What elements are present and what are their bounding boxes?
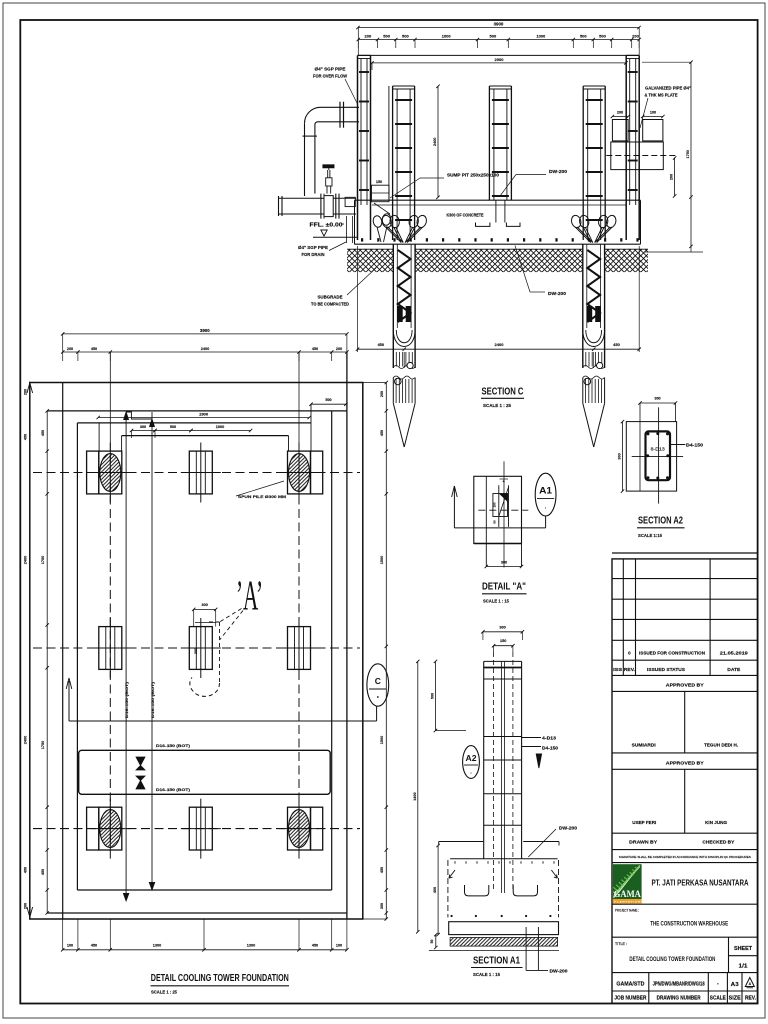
svg-text:450: 450 xyxy=(312,347,318,351)
svg-text:3900: 3900 xyxy=(494,22,504,27)
svg-text:1500: 1500 xyxy=(380,556,384,564)
svg-text:SECTION C: SECTION C xyxy=(482,386,524,398)
svg-text:FFL. ±0.00: FFL. ±0.00 xyxy=(310,223,343,229)
svg-text:2400: 2400 xyxy=(495,342,505,347)
svg-text:Ø4" SGP PIPE: Ø4" SGP PIPE xyxy=(298,245,328,250)
svg-text:200: 200 xyxy=(617,111,623,115)
svg-text:’A’: ’A’ xyxy=(236,574,263,620)
svg-text:300: 300 xyxy=(140,425,146,429)
svg-text:1000: 1000 xyxy=(216,425,224,429)
svg-text:GAMA: GAMA xyxy=(614,889,641,899)
svg-text:JPN/DWG/MBANR/DWG/18: JPN/DWG/MBANR/DWG/18 xyxy=(653,982,705,988)
svg-text:D16-150 (BOT): D16-150 (BOT) xyxy=(125,681,129,718)
svg-text:SUMIARDI: SUMIARDI xyxy=(632,743,656,748)
svg-text:ISSUED STATUS: ISSUED STATUS xyxy=(647,667,685,672)
svg-text:1750: 1750 xyxy=(41,741,45,749)
svg-text:1400: 1400 xyxy=(413,792,417,800)
svg-text:450: 450 xyxy=(24,434,28,440)
svg-text:50: 50 xyxy=(430,940,434,944)
svg-text:DETAIL "A": DETAIL "A" xyxy=(482,582,526,593)
svg-text:450: 450 xyxy=(380,430,384,436)
svg-text:500: 500 xyxy=(402,34,409,39)
svg-text:100: 100 xyxy=(67,943,73,947)
svg-text:D16-150 (BOT): D16-150 (BOT) xyxy=(156,788,191,792)
svg-text:SCALE 1 : 25: SCALE 1 : 25 xyxy=(151,989,177,994)
svg-text:150: 150 xyxy=(493,502,497,507)
svg-text:4: 4 xyxy=(503,479,505,483)
svg-text:100: 100 xyxy=(336,943,342,947)
svg-text:D4-150: D4-150 xyxy=(542,746,559,751)
svg-text:KIN JUNG: KIN JUNG xyxy=(705,820,728,825)
svg-text:450: 450 xyxy=(24,867,28,873)
svg-text:450: 450 xyxy=(377,342,384,347)
svg-text:SECTION A1: SECTION A1 xyxy=(473,955,520,966)
svg-text:3900: 3900 xyxy=(200,328,210,333)
svg-text:FOR DRAIN: FOR DRAIN xyxy=(302,252,325,257)
svg-text:1300: 1300 xyxy=(247,943,255,947)
svg-text:SPUN PILE Ø300 MM: SPUN PILE Ø300 MM xyxy=(238,494,287,499)
svg-text:2400: 2400 xyxy=(24,556,28,564)
svg-text:50: 50 xyxy=(493,520,497,524)
svg-text:300: 300 xyxy=(380,903,384,909)
svg-text:1750: 1750 xyxy=(41,556,45,564)
svg-text:SIGNATURE SHALL BE COMPLETED I: SIGNATURE SHALL BE COMPLETED IN ACCORDAN… xyxy=(619,855,751,859)
svg-text:TEGUH DEDI H.: TEGUH DEDI H. xyxy=(704,743,738,748)
svg-text:500: 500 xyxy=(490,34,497,39)
svg-text:SECTION A2: SECTION A2 xyxy=(638,516,683,527)
svg-text:THE CONSTRUCTION WAREHOUSE: THE CONSTRUCTION WAREHOUSE xyxy=(650,921,728,927)
svg-text:APPROVED BY: APPROVED BY xyxy=(666,683,705,689)
svg-text:450: 450 xyxy=(613,342,620,347)
svg-text:SCALE 1:15: SCALE 1:15 xyxy=(638,533,662,538)
svg-text:200: 200 xyxy=(24,903,28,909)
svg-text:300: 300 xyxy=(194,648,198,654)
svg-text:TO BE COMPACTED: TO BE COMPACTED xyxy=(311,301,349,306)
svg-text:500: 500 xyxy=(383,34,390,39)
svg-text:K300 OF CONCRETE: K300 OF CONCRETE xyxy=(447,213,484,218)
svg-text:APPROVED BY: APPROVED BY xyxy=(666,760,705,766)
svg-text:SCALE 1 : 15: SCALE 1 : 15 xyxy=(473,972,500,977)
svg-text:DW-200: DW-200 xyxy=(549,169,568,174)
svg-text:200: 200 xyxy=(67,347,73,351)
svg-text:REV.: REV. xyxy=(624,667,635,672)
svg-text:SUBGRADE: SUBGRADE xyxy=(318,294,343,299)
svg-text:SCALE 1 : 15: SCALE 1 : 15 xyxy=(483,599,509,604)
svg-text:300: 300 xyxy=(499,625,505,629)
svg-text:JOB NUMBER: JOB NUMBER xyxy=(614,995,646,1001)
svg-text:300: 300 xyxy=(501,560,507,564)
svg-text:500: 500 xyxy=(431,693,435,699)
svg-text:0: 0 xyxy=(628,650,631,655)
svg-text:DRAWN BY: DRAWN BY xyxy=(629,840,658,846)
svg-text:1/1: 1/1 xyxy=(739,963,748,969)
svg-text:DW-200: DW-200 xyxy=(550,968,569,973)
svg-text:21.05.2019: 21.05.2019 xyxy=(720,650,749,655)
svg-text:2400: 2400 xyxy=(24,736,28,744)
svg-text:SCALE: SCALE xyxy=(710,995,727,1001)
svg-text:450: 450 xyxy=(312,943,318,947)
svg-text:1500: 1500 xyxy=(380,736,384,744)
svg-text:200: 200 xyxy=(336,347,342,351)
svg-text:500: 500 xyxy=(580,34,587,39)
svg-text:2900: 2900 xyxy=(199,412,209,417)
svg-text:DW-200: DW-200 xyxy=(559,826,578,831)
svg-text:GAMA/STD: GAMA/STD xyxy=(616,982,644,988)
svg-text:450: 450 xyxy=(41,869,45,875)
svg-text:SIZE: SIZE xyxy=(729,995,742,1001)
svg-text:150: 150 xyxy=(500,639,506,643)
svg-text:400: 400 xyxy=(433,887,437,893)
svg-text:450: 450 xyxy=(380,867,384,873)
svg-text:FOR OVER FLOW: FOR OVER FLOW xyxy=(313,74,347,79)
svg-text:500: 500 xyxy=(599,34,606,39)
svg-text:SHEET: SHEET xyxy=(734,946,753,952)
svg-text:DATE: DATE xyxy=(727,667,740,672)
svg-text:A1: A1 xyxy=(539,486,552,496)
svg-text:2400: 2400 xyxy=(433,138,437,146)
svg-text:SUMP PIT 250x250x100: SUMP PIT 250x250x100 xyxy=(447,173,500,178)
svg-text:450: 450 xyxy=(91,347,97,351)
svg-text:450: 450 xyxy=(91,943,97,947)
svg-text:DETAIL COOLING TOWER FOUNDATIO: DETAIL COOLING TOWER FOUNDATION xyxy=(629,957,715,963)
svg-text:USEP FERI: USEP FERI xyxy=(632,820,656,825)
svg-text:1300: 1300 xyxy=(153,943,161,947)
svg-text:PROJECT NAME :: PROJECT NAME : xyxy=(615,909,639,913)
svg-text:1000: 1000 xyxy=(536,34,546,39)
svg-text:A2: A2 xyxy=(466,754,478,763)
svg-text:1750: 1750 xyxy=(686,150,690,158)
svg-text:D4-150: D4-150 xyxy=(686,442,704,447)
svg-text:2400: 2400 xyxy=(201,347,209,351)
svg-text:300: 300 xyxy=(654,397,660,401)
svg-text:PT. JATI PERKASA NUSANTARA: PT. JATI PERKASA NUSANTARA xyxy=(652,879,749,888)
svg-text:8-D13: 8-D13 xyxy=(651,447,666,452)
svg-text:P L A N T A T I O N: P L A N T A T I O N xyxy=(614,901,641,904)
svg-text:SCALE 1 : 25: SCALE 1 : 25 xyxy=(483,403,511,408)
svg-text:REV.: REV. xyxy=(745,995,757,1001)
svg-text:DW-200: DW-200 xyxy=(548,291,567,296)
svg-text:DRAWING NUMBER: DRAWING NUMBER xyxy=(657,995,701,1001)
svg-text:ISS: ISS xyxy=(613,667,622,672)
svg-text:CHECKED BY: CHECKED BY xyxy=(702,840,735,846)
svg-text:Ø4" SGP PIPE: Ø4" SGP PIPE xyxy=(315,67,346,72)
svg-text:TITLE :: TITLE : xyxy=(615,942,627,946)
svg-text:100: 100 xyxy=(650,111,656,115)
svg-text:200: 200 xyxy=(365,34,372,39)
svg-text:500: 500 xyxy=(170,425,176,429)
svg-text:150: 150 xyxy=(376,180,382,184)
svg-text:ISSUED FOR CONSTRUCTION: ISSUED FOR CONSTRUCTION xyxy=(639,650,706,655)
svg-text:300: 300 xyxy=(618,453,622,459)
svg-text:1000: 1000 xyxy=(442,34,452,39)
svg-text:D16-150 (BOT): D16-150 (BOT) xyxy=(156,744,191,748)
svg-text:A3: A3 xyxy=(731,982,739,988)
svg-text:DETAIL COOLING TOWER FOUNDA: DETAIL COOLING TOWER FOUNDATION xyxy=(151,972,289,984)
svg-text:200: 200 xyxy=(632,34,639,39)
svg-text:300: 300 xyxy=(202,603,208,607)
svg-text:GALVANIZED PIPE Ø4": GALVANIZED PIPE Ø4" xyxy=(645,86,691,91)
svg-text:200: 200 xyxy=(380,391,384,397)
svg-text:500: 500 xyxy=(325,398,331,402)
svg-text:200: 200 xyxy=(24,389,28,395)
svg-text:D16-150 (BOT): D16-150 (BOT) xyxy=(151,681,155,718)
svg-text:C: C xyxy=(375,676,381,686)
svg-text:200: 200 xyxy=(670,174,674,180)
svg-text:450: 450 xyxy=(41,430,45,436)
svg-text:4-D13: 4-D13 xyxy=(542,736,557,741)
svg-text:& THK MS PLATE: & THK MS PLATE xyxy=(645,93,678,98)
svg-text:2900: 2900 xyxy=(495,57,505,62)
